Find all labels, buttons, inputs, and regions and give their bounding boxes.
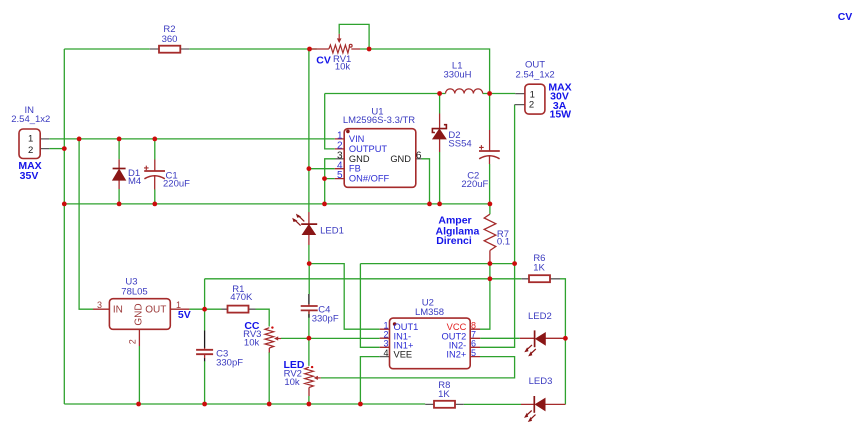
LED1 leads <box>308 212 310 245</box>
capacitor C4 <box>301 306 318 310</box>
svg-text:OUT: OUT <box>145 304 166 315</box>
wire IN2+ pin5 to RV2 wiper <box>321 357 515 378</box>
wire U1 GND pin3 / ON-OFF pin5 to ground <box>325 159 336 204</box>
node IN1- C4 RV3 <box>307 336 312 341</box>
resistor R1 leads <box>222 308 256 310</box>
wire Vout row y=93.5 <box>325 93 446 95</box>
svg-text:2.54_1x2: 2.54_1x2 <box>516 69 555 80</box>
wire 5V to R6 row y=278.8 <box>205 279 522 309</box>
U1 pin3 GND lead <box>336 158 345 160</box>
node Vin pin1 taps <box>77 137 82 142</box>
svg-text:5V: 5V <box>178 309 191 321</box>
svg-text:CV: CV <box>316 54 331 66</box>
svg-text:35V: 35V <box>20 170 39 182</box>
RV2 bottom lead <box>308 388 310 397</box>
capacitor C3 bottom black bit <box>204 358 206 361</box>
svg-text:470K: 470K <box>230 292 253 303</box>
capacitor C3 top lead <box>204 331 206 349</box>
U2 pin1 pin2 pin3 leads <box>380 329 390 347</box>
wire R2 to RV1 <box>189 48 316 50</box>
node ON/OFF pin5 <box>322 176 327 181</box>
inductor L1 <box>446 89 483 94</box>
connector IN body <box>19 129 40 159</box>
wire OUT pin2 down x=514.6 <box>514 105 516 264</box>
svg-text:330pF: 330pF <box>312 314 339 325</box>
wire IN2- pin6 up <box>480 264 515 348</box>
LED3 <box>524 396 545 422</box>
svg-text:78L05: 78L05 <box>121 287 147 298</box>
svg-text:OUTPUT: OUTPUT <box>349 144 388 154</box>
node IN pin2 <box>62 146 67 151</box>
svg-text:LM2596S-3.3/TR: LM2596S-3.3/TR <box>343 115 415 126</box>
wire L1 right to OUT pin1 <box>483 93 516 95</box>
svg-text:ON#/OFF: ON#/OFF <box>349 174 390 184</box>
svg-text:10k: 10k <box>284 377 300 388</box>
wire RV2 column <box>308 338 310 404</box>
nodes on ground rail <box>62 202 67 207</box>
node Vout L1 left <box>437 91 442 96</box>
svg-text:LED3: LED3 <box>529 376 553 387</box>
wire R7 bottom to VCC pin8 <box>480 264 490 330</box>
svg-text:LM358: LM358 <box>415 307 444 318</box>
capacitor C3 bottom lead <box>204 354 206 358</box>
potentiometer RV2 <box>305 367 321 387</box>
wire R7 top <box>489 204 491 214</box>
C2 leads <box>489 130 491 164</box>
wire node LED1/C4 to OUT1 pin1 <box>309 264 380 330</box>
wire U1 pin6 GND down <box>422 159 430 204</box>
resistor R6 leads <box>521 278 560 280</box>
resistor R2 leads <box>150 48 190 50</box>
regulator U3 78L05 body <box>109 299 170 330</box>
wire top FB rail y=49 left of R2 <box>64 48 149 50</box>
node 5V <box>202 307 207 312</box>
node VCC 5V <box>488 276 493 281</box>
RV1 leads <box>310 48 361 50</box>
svg-text:6: 6 <box>416 150 422 161</box>
LED3 leads <box>521 403 565 405</box>
node FB top <box>307 47 312 52</box>
wire R6 right down to LED2/LED3 <box>560 279 565 405</box>
wire R8 to LED3 <box>464 403 521 405</box>
svg-text:VEE: VEE <box>394 350 413 360</box>
node Vout L1 right <box>487 91 492 96</box>
wire D1 column <box>118 139 120 204</box>
svg-text:LED2: LED2 <box>528 311 552 322</box>
capacitor C4 bottom lead <box>308 310 310 314</box>
svg-text:IN2+: IN2+ <box>446 350 466 360</box>
STUBS <box>40 49 565 404</box>
wire RV1 wiper loop <box>339 24 369 49</box>
wire C4 column <box>308 264 310 339</box>
svg-text:360: 360 <box>162 34 178 45</box>
wire D2 column <box>439 94 441 204</box>
svg-text:4: 4 <box>383 348 388 358</box>
U2 pin8 pin7 pin6 pin5 leads <box>470 329 480 356</box>
svg-text:M4: M4 <box>128 176 141 187</box>
resistor R6 <box>529 275 550 282</box>
diode D1 <box>113 169 126 181</box>
svg-text:GND: GND <box>390 154 411 164</box>
svg-text:330pF: 330pF <box>216 358 243 369</box>
resistor R7 <box>484 214 496 250</box>
svg-text:2: 2 <box>28 145 33 156</box>
wire node to IN1+ pin3 <box>360 264 514 348</box>
wire 5V row y=309.2 <box>189 308 221 310</box>
svg-text:10k: 10k <box>244 338 260 349</box>
D2 leads <box>439 114 441 153</box>
capacitor C4 top red bit <box>308 304 310 306</box>
RV3 bottom lead <box>268 348 270 353</box>
svg-text:2: 2 <box>529 100 534 111</box>
svg-text:3: 3 <box>97 300 102 310</box>
U1 pin6 GND lead <box>416 158 422 160</box>
svg-text:CV: CV <box>838 11 853 23</box>
LED1 <box>292 214 317 235</box>
node OUT- sense <box>512 261 517 266</box>
op-amp U2 LM358 body <box>390 318 471 369</box>
connector IN pin leads <box>40 139 49 149</box>
U1 pin1 pin2 pin4 pin5 leads <box>335 139 344 179</box>
wire C2 column <box>489 94 491 204</box>
svg-text:VIN: VIN <box>349 134 365 144</box>
U3 pin1 lead <box>170 308 189 310</box>
capacitor C4 bottom black bit <box>308 314 310 318</box>
wire OUT2 pin7 to LED2 <box>480 337 520 339</box>
svg-text:10k: 10k <box>335 62 351 73</box>
svg-text:1K: 1K <box>533 263 545 274</box>
svg-text:220uF: 220uF <box>461 179 488 190</box>
resistor R8 leads <box>425 403 464 405</box>
wire U3 GND pin2 down <box>138 346 140 404</box>
connector OUT pin leads <box>515 94 525 105</box>
svg-text:GND: GND <box>134 303 145 325</box>
wire VIN row y=138.9 <box>49 138 335 140</box>
svg-text:0.1: 0.1 <box>497 237 510 248</box>
U2 pin4 VEE lead <box>380 356 390 358</box>
node R7 bottom <box>488 261 493 266</box>
R7 bottom lead <box>489 251 491 264</box>
wire FB column x=308.9 / LED1 <box>309 49 335 264</box>
wire VEE pin4 to ground <box>360 357 379 404</box>
wire OUTPUT pin2 vertical <box>325 94 335 149</box>
svg-text:220uF: 220uF <box>163 178 190 189</box>
wire ground rail y=203.9 <box>64 203 490 205</box>
svg-text:1K: 1K <box>438 389 450 400</box>
svg-text:Direnci: Direnci <box>436 235 472 247</box>
LED2 <box>524 330 545 356</box>
D1 leads <box>118 159 120 189</box>
nodes on bottom rail <box>136 402 141 407</box>
U3 pin3 lead <box>93 308 109 310</box>
svg-text:5: 5 <box>337 170 343 181</box>
node RV1 right <box>367 47 372 52</box>
wire C3 column <box>204 309 206 404</box>
wire R1 right to RV3 top <box>256 309 270 326</box>
node FB pin4 <box>307 166 312 171</box>
diode D2 SS54 schottky <box>432 125 446 139</box>
connector OUT body <box>525 84 545 114</box>
svg-text:5: 5 <box>471 348 476 358</box>
regulator U1 LM2596 body <box>344 129 416 188</box>
node LED1/C4/OUT1 <box>307 261 312 266</box>
svg-text:330uH: 330uH <box>444 69 472 80</box>
svg-text:1: 1 <box>28 134 33 145</box>
U3 pin2 GND lead <box>138 329 140 346</box>
svg-text:FB: FB <box>349 164 361 174</box>
resistor R8 <box>434 401 455 408</box>
C1 bottom lead <box>154 160 156 190</box>
resistor R1 <box>228 306 249 313</box>
resistor R2 <box>159 46 180 53</box>
svg-text:2: 2 <box>128 339 138 344</box>
wire Vin vertical x=79.1 to U3 <box>79 139 93 309</box>
potentiometer RV1 <box>329 34 352 53</box>
capacitor C3 <box>196 350 213 354</box>
node LED2 right <box>563 336 568 341</box>
LED2 leads <box>520 337 566 339</box>
wire RV1 right to Vout corner <box>360 49 490 94</box>
capacitor C3 top red bit <box>204 348 206 350</box>
wire left ground vertical x=64.3 <box>63 49 65 404</box>
capacitor C1 electrolytic <box>144 166 165 179</box>
svg-text:LED1: LED1 <box>320 226 344 237</box>
wire RV3 bottom to ground <box>268 352 270 404</box>
svg-text:GND: GND <box>349 154 370 164</box>
svg-text:IN: IN <box>113 304 123 315</box>
svg-text:15W: 15W <box>550 109 572 121</box>
svg-text:2.54_1x2: 2.54_1x2 <box>11 114 50 125</box>
wire RV3 wiper to IN1- pin2 <box>281 337 380 339</box>
wire IN pin2 to left vertical <box>49 148 64 150</box>
svg-text:SS54: SS54 <box>448 139 471 150</box>
wire bottom ground rail y=404 <box>64 403 425 405</box>
wire C1 column <box>154 139 156 204</box>
capacitor C4 top lead <box>308 294 310 304</box>
capacitor C2 electrolytic <box>479 145 500 159</box>
potentiometer RV3 <box>265 328 281 348</box>
